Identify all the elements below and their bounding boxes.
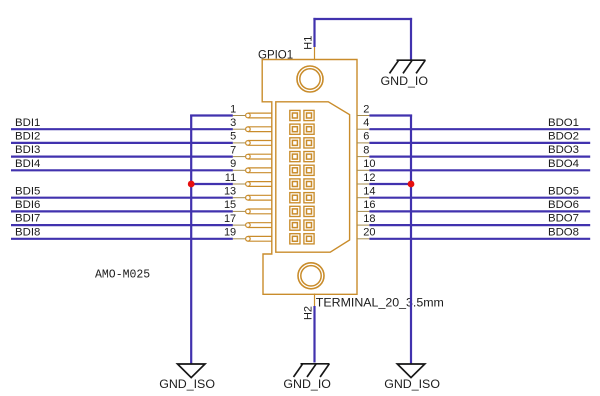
pin 4 stub (357, 128, 370, 130)
connector GPIO1 D-shaped insert outline (276, 102, 350, 252)
contact squares row 4 (290, 152, 300, 162)
contact squares row 6 (290, 179, 300, 189)
contact squares row 7 (290, 193, 300, 203)
svg-text:BDI1: BDI1 (15, 117, 40, 129)
contact squares row 3 (290, 138, 300, 148)
ground symbol GND_IO (bottom centre) (301, 363, 330, 365)
wire top horizontal (313, 18, 412, 20)
svg-text:4: 4 (363, 117, 369, 129)
pin 17 stub (233, 224, 246, 226)
svg-text:19: 19 (224, 227, 236, 239)
svg-text:8: 8 (363, 144, 369, 156)
pin 2 stub (357, 115, 370, 117)
pin 15 stub (233, 210, 246, 212)
svg-text:5: 5 (230, 131, 236, 143)
wire pin 12 to right vertical (369, 183, 411, 185)
svg-text:2: 2 (363, 103, 369, 115)
svg-text:7: 7 (230, 144, 236, 156)
svg-text:18: 18 (363, 213, 375, 225)
contact squares row 2 (290, 124, 300, 134)
contact squares row 5 (290, 165, 300, 175)
wire BDI3 (11, 156, 233, 158)
svg-text:H2: H2 (303, 306, 315, 320)
svg-text:BDO5: BDO5 (548, 185, 579, 197)
svg-text:BDI8: BDI8 (15, 226, 40, 238)
svg-text:BDI7: BDI7 (15, 213, 40, 225)
wire BDO6 (369, 210, 590, 212)
pin 16 stub (357, 210, 370, 212)
svg-text:GND_ISO: GND_ISO (384, 377, 440, 391)
pin H1 stub (314, 47, 316, 61)
svg-text:14: 14 (363, 186, 375, 198)
wire BDI8 (11, 238, 233, 240)
wire BDO8 (369, 238, 590, 240)
svg-text:GND_IO: GND_IO (283, 377, 331, 391)
pin 7 stub (233, 156, 246, 158)
contact squares row 9 (290, 220, 300, 230)
wire BDI2 (11, 142, 233, 144)
contact squares row 10 (290, 234, 300, 244)
svg-text:20: 20 (363, 227, 375, 239)
pin 12 stub (357, 183, 370, 185)
wire pin 2 to right vertical (369, 114, 412, 116)
ground symbol GND_ISO (bottom left) (178, 364, 206, 378)
svg-text:AMO-M025: AMO-M025 (95, 269, 150, 282)
connector GPIO1 body outline (262, 60, 357, 295)
pin 20 stub (357, 238, 370, 240)
wire BDI6 (11, 210, 233, 212)
svg-text:GND_ISO: GND_ISO (159, 377, 215, 391)
pin H2 stub (314, 294, 316, 307)
contact squares row 1 (290, 110, 300, 120)
svg-text:3: 3 (230, 117, 236, 129)
wire BDI7 (11, 224, 233, 226)
mounting hole circle (bottom) (298, 263, 324, 289)
svg-text:BDI3: BDI3 (15, 144, 40, 156)
pin 9 stub (233, 169, 246, 171)
pin 11 stub (233, 183, 246, 185)
wire BDO4 (369, 169, 590, 171)
pin 19 stub (233, 238, 246, 240)
contact squares row 8 (290, 206, 300, 216)
svg-text:BDI2: BDI2 (15, 131, 40, 143)
svg-text:BDO1: BDO1 (548, 117, 579, 129)
svg-text:GND_IO: GND_IO (381, 74, 429, 88)
wire BDO1 (369, 128, 590, 130)
svg-text:17: 17 (224, 213, 236, 225)
wire pin 1 to left vertical (190, 114, 233, 116)
svg-text:12: 12 (363, 172, 375, 184)
pin 6 stub (357, 142, 370, 144)
svg-text:BDO6: BDO6 (548, 199, 579, 211)
svg-text:BDO7: BDO7 (548, 213, 579, 225)
ground symbol GND_ISO (bottom right) (397, 364, 425, 378)
svg-text:16: 16 (363, 199, 375, 211)
pin 1 stub (233, 115, 246, 117)
wire H1 up (313, 18, 315, 47)
junction dot pin 11 / GND_ISO (188, 181, 195, 188)
wire left vertical (GND_ISO net) (190, 115, 192, 364)
pin 5 stub (233, 142, 246, 144)
mounting hole circle (top) (297, 66, 323, 92)
wire pin 11 to left vertical (191, 183, 233, 185)
svg-text:GPIO1: GPIO1 (258, 50, 293, 62)
svg-text:BDI5: BDI5 (15, 185, 40, 197)
svg-text:10: 10 (363, 158, 375, 170)
svg-text:BDI4: BDI4 (15, 158, 40, 170)
wire BDI4 (11, 169, 233, 171)
svg-text:TERMINAL_20_3.5mm: TERMINAL_20_3.5mm (316, 295, 444, 309)
svg-text:6: 6 (363, 131, 369, 143)
svg-text:BDO2: BDO2 (548, 131, 579, 143)
pin 10 stub (357, 169, 370, 171)
svg-text:BDO8: BDO8 (548, 226, 579, 238)
svg-text:13: 13 (224, 186, 236, 198)
wire down to GND_IO top right (410, 18, 412, 60)
junction dot pin 12 / GND_ISO (408, 181, 415, 188)
svg-text:BDO4: BDO4 (548, 158, 579, 170)
pin 13 stub (233, 197, 246, 199)
wire BDI1 (11, 128, 233, 130)
ground symbol GND_IO (top right) (397, 59, 426, 61)
svg-text:9: 9 (230, 158, 236, 170)
wire BDO2 (369, 142, 590, 144)
wire BDI5 (11, 197, 233, 199)
pin 3 stub (233, 128, 246, 130)
svg-text:15: 15 (224, 199, 236, 211)
wire BDO7 (369, 224, 590, 226)
svg-text:11: 11 (225, 172, 236, 184)
wire right vertical (GND_ISO net) (410, 115, 412, 364)
svg-text:BDI6: BDI6 (15, 199, 40, 211)
wire BDO5 (369, 197, 590, 199)
pin 8 stub (357, 156, 370, 158)
wire H2 down to GND_IO bottom (313, 306, 315, 363)
pin 14 stub (357, 197, 370, 199)
svg-text:BDO3: BDO3 (548, 144, 579, 156)
wire BDO3 (369, 156, 590, 158)
svg-text:1: 1 (230, 103, 236, 115)
pin 18 stub (357, 224, 370, 226)
svg-text:H1: H1 (303, 36, 315, 50)
